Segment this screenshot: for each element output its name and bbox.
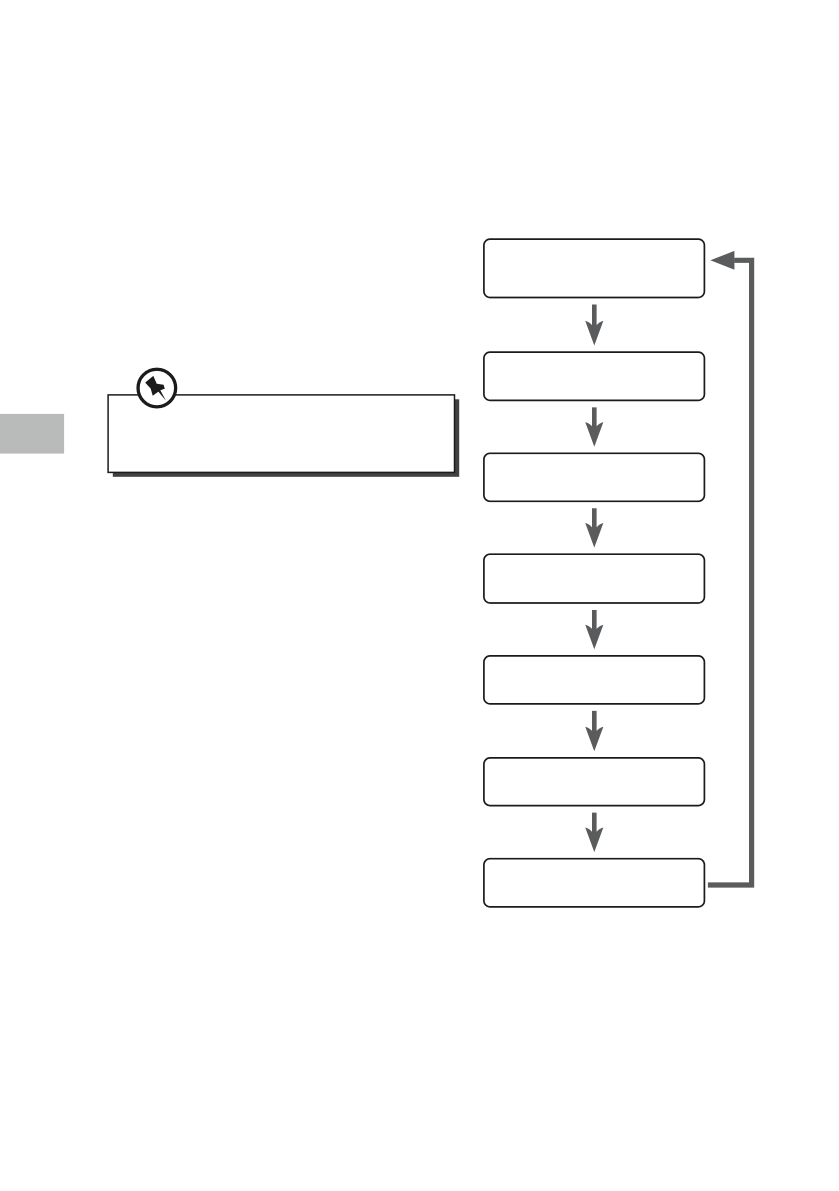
down arrow 3 [585,508,603,547]
down arrow 2 [585,407,603,446]
down arrow 4 [585,610,603,649]
feedback loop line [708,260,752,885]
pushpin glyph [145,376,166,401]
flowchart box 2 [484,352,705,400]
left margin gray tab [0,414,64,454]
flowchart box 3 [484,453,705,501]
note box shadow [113,399,459,477]
note box [108,395,454,473]
down arrow 1 [585,305,603,346]
down arrow 6 [585,813,603,853]
flowchart box 6 [484,758,705,806]
flowchart box 7 [484,859,705,907]
down arrow 5 [585,711,603,751]
pushpin icon circle [138,369,176,407]
flowchart box 1 [484,239,705,297]
flowchart box 5 [484,656,705,704]
flowchart box 4 [484,554,705,603]
feedback loop arrowhead [710,251,734,270]
